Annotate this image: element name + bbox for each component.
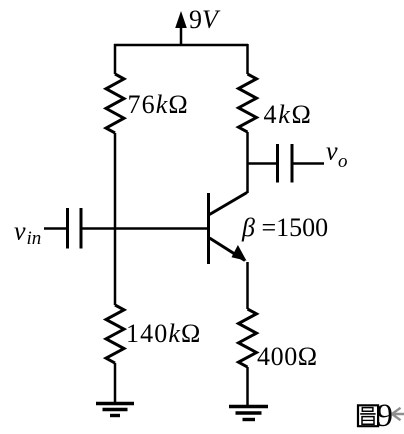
wire from rail to R3 top xyxy=(246,44,249,74)
label vin xyxy=(14,217,41,250)
svg-text:9V: 9V xyxy=(189,5,221,34)
capacitor C2 output xyxy=(278,144,293,183)
transistor Q1 collector lead xyxy=(210,193,248,215)
capacitor C1 input xyxy=(68,208,82,249)
label beta = 1500 xyxy=(241,213,328,242)
svg-text:9: 9 xyxy=(377,398,394,434)
wire R3 bottom to collector node xyxy=(246,132,249,193)
wire R2 bottom to ground xyxy=(114,363,117,403)
svg-text:v: v xyxy=(326,137,338,166)
ground right xyxy=(229,407,268,420)
paragraph mark arrow xyxy=(392,408,404,420)
svg-text:4kΩ: 4kΩ xyxy=(264,100,313,129)
transistor Q1 base bar xyxy=(207,193,210,264)
label 9V xyxy=(189,5,221,34)
svg-text:140kΩ: 140kΩ xyxy=(126,319,201,348)
svg-text:β =1500: β =1500 xyxy=(241,213,328,242)
resistor R1 76kΩ xyxy=(106,74,124,133)
transistor Q1 emitter lead with arrow xyxy=(210,238,247,261)
svg-text:in: in xyxy=(27,228,42,249)
wire top rail VCC xyxy=(114,44,248,47)
wire C2 to vo xyxy=(294,162,325,165)
wire vin to C1 xyxy=(44,227,66,230)
wire R4 bottom to ground xyxy=(246,367,249,406)
label 400Ω xyxy=(257,342,318,371)
wire collector node to C2 xyxy=(247,162,277,165)
caption figure 9 glyph 圖 drawn xyxy=(358,405,378,426)
resistor R3 4kΩ xyxy=(239,74,257,132)
caption figure number 9 xyxy=(377,398,394,434)
label 76kΩ xyxy=(128,90,189,119)
resistor R4 400Ω xyxy=(239,309,257,367)
wire R1 bottom to base node to R2 top xyxy=(114,133,117,305)
svg-text:o: o xyxy=(338,151,348,172)
label 140kΩ xyxy=(126,319,201,348)
resistor R2 140kΩ xyxy=(106,305,124,363)
ground left xyxy=(96,404,134,416)
wire from rail to R1 top xyxy=(114,44,117,74)
power supply arrow 9V xyxy=(175,11,187,45)
svg-text:400Ω: 400Ω xyxy=(257,342,318,371)
svg-text:v: v xyxy=(14,217,26,246)
label 4kΩ xyxy=(264,100,313,129)
wire emitter to R4 top xyxy=(246,262,249,309)
wire C1 to base xyxy=(83,227,208,230)
label vo xyxy=(326,137,348,173)
svg-text:76kΩ: 76kΩ xyxy=(128,90,189,119)
